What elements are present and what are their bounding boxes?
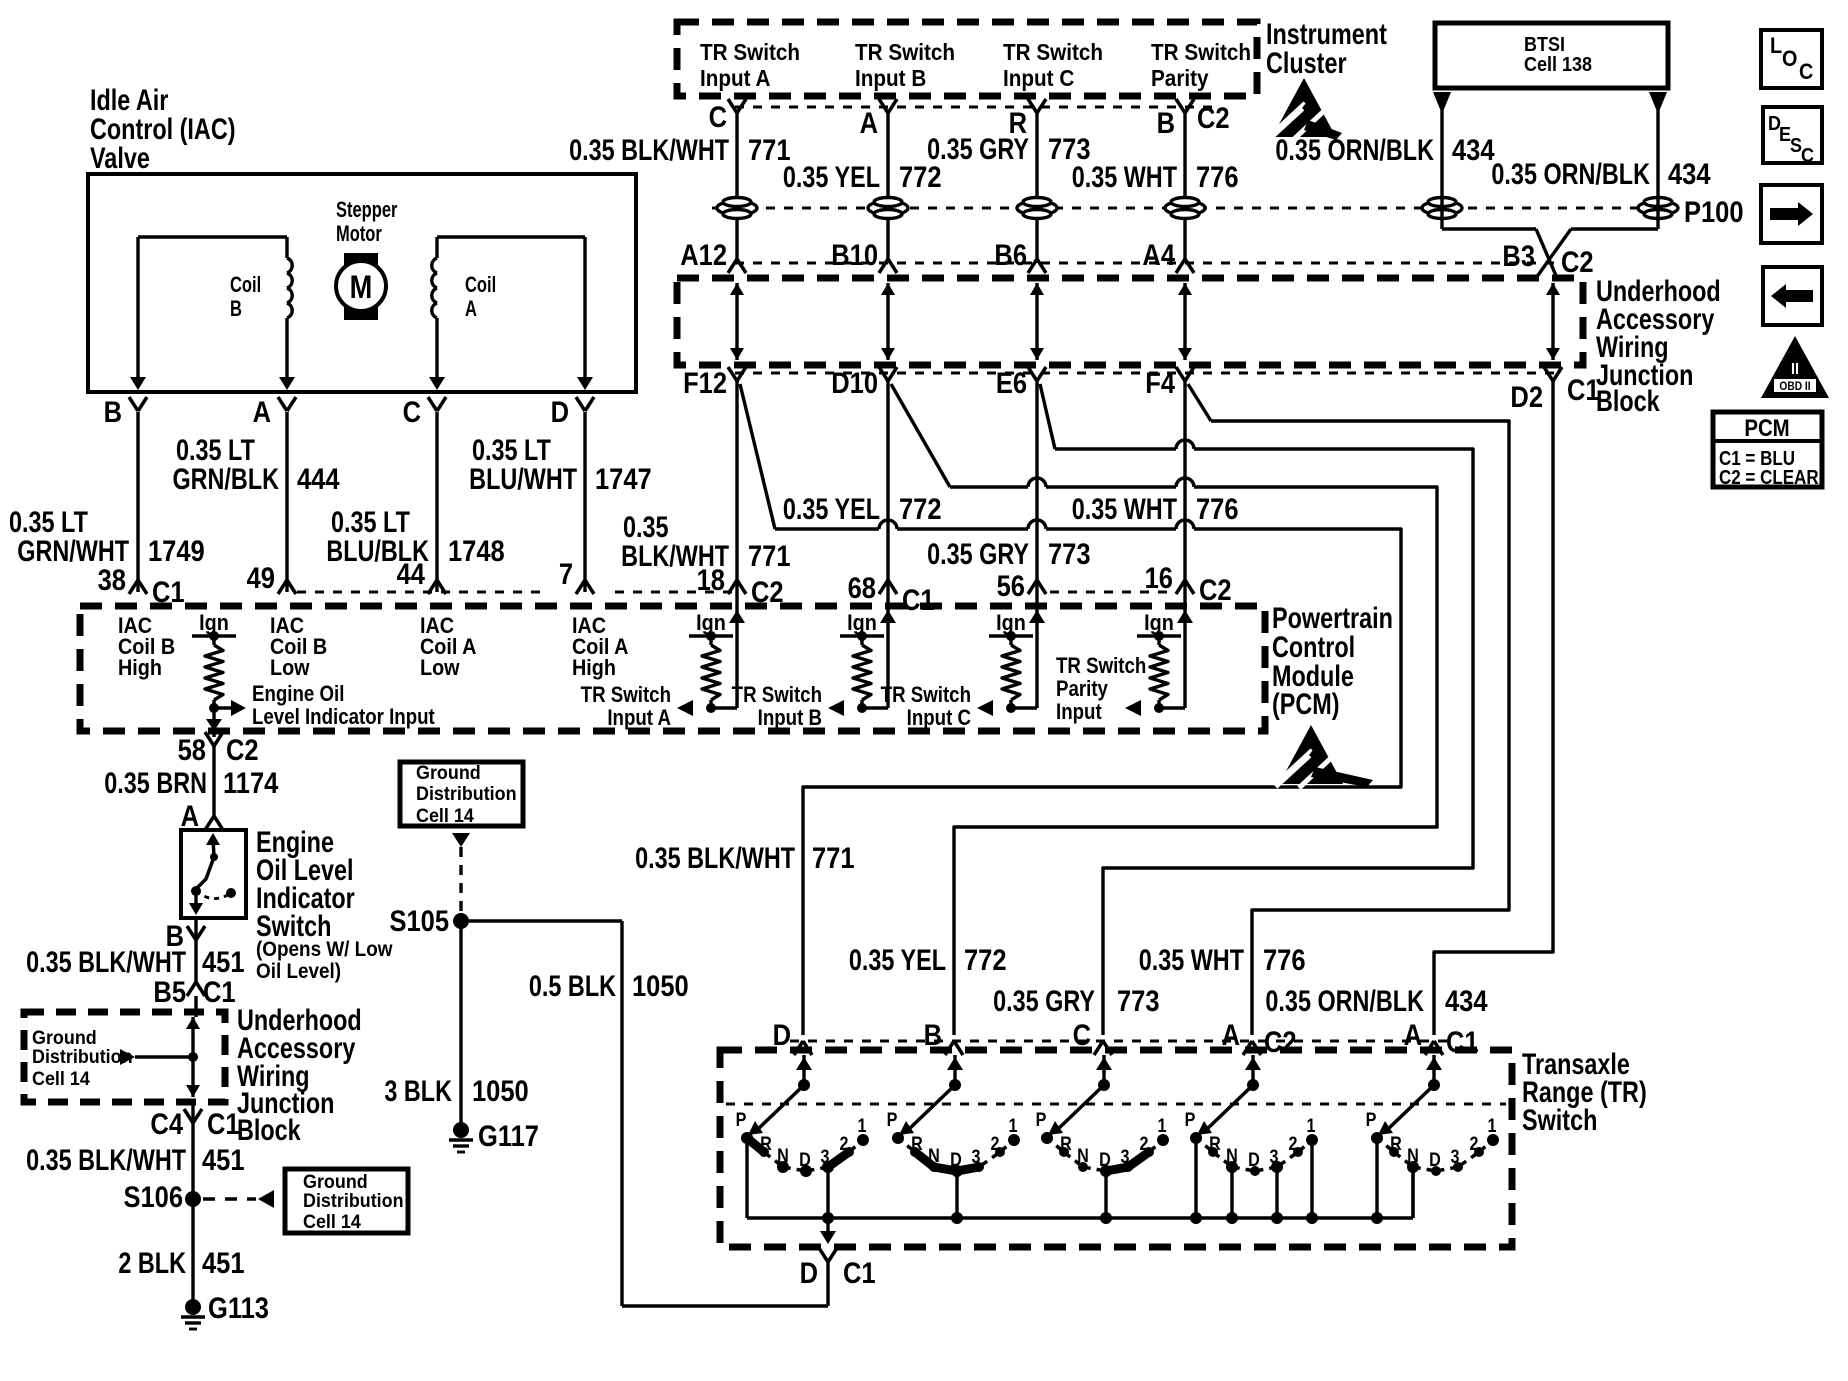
svg-text:BTSI: BTSI bbox=[1524, 34, 1565, 56]
svg-text:Coil: Coil bbox=[465, 273, 496, 298]
TR switch pin B bbox=[945, 1041, 954, 1055]
svg-text:D: D bbox=[551, 395, 569, 428]
instrument cluster internal function box bbox=[677, 22, 1257, 96]
PCM pin 18/C2 bbox=[728, 580, 737, 594]
wire 3 BLK 1050 bbox=[459, 921, 462, 1124]
ground G117 bbox=[453, 1122, 469, 1138]
svg-text:M: M bbox=[350, 270, 373, 306]
svg-text:G113: G113 bbox=[208, 1291, 269, 1324]
wire 772 lower horizontal to TR pin B bbox=[954, 818, 1437, 1035]
svg-text:Stepper: Stepper bbox=[336, 198, 398, 223]
svg-text:TR Switch: TR Switch bbox=[1056, 655, 1146, 679]
pin E6 junction block bottom bbox=[1028, 367, 1037, 381]
svg-text:0.35 WHT: 0.35 WHT bbox=[1072, 160, 1178, 193]
pin C of instrument cluster bbox=[728, 99, 737, 113]
svg-text:773: 773 bbox=[1117, 984, 1160, 1017]
svg-text:451: 451 bbox=[202, 945, 245, 978]
svg-text:776: 776 bbox=[1263, 943, 1306, 976]
svg-text:C: C bbox=[1801, 145, 1814, 167]
PCM pin 7 bbox=[576, 580, 585, 594]
svg-text:58: 58 bbox=[178, 733, 206, 766]
svg-text:451: 451 bbox=[202, 1143, 245, 1176]
svg-text:1747: 1747 bbox=[595, 462, 652, 495]
wire 773 lower horizontal to TR pin C bbox=[1103, 859, 1473, 1035]
dashed reference to ground distribution bbox=[203, 1197, 256, 1200]
svg-text:0.35 YEL: 0.35 YEL bbox=[783, 160, 880, 193]
svg-text:D: D bbox=[800, 1256, 818, 1289]
svg-text:G117: G117 bbox=[478, 1119, 539, 1152]
svg-text:0.35 ORN/BLK: 0.35 ORN/BLK bbox=[1491, 157, 1650, 190]
svg-text:0.35 WHT: 0.35 WHT bbox=[1072, 492, 1178, 525]
svg-text:High: High bbox=[572, 656, 616, 680]
svg-text:D: D bbox=[1248, 1149, 1260, 1171]
inline connector (BTSI left wire) bbox=[1422, 201, 1462, 215]
svg-text:0.35 BRN: 0.35 BRN bbox=[104, 766, 207, 799]
wire from IAC pin A to PCM bbox=[285, 412, 288, 592]
inline connector at x=1185 bbox=[1165, 201, 1205, 215]
svg-text:R: R bbox=[911, 1133, 923, 1155]
svg-text:B: B bbox=[104, 395, 122, 428]
PCM pin 49 bbox=[278, 580, 287, 594]
svg-text:771: 771 bbox=[812, 841, 855, 874]
svg-text:0.35 YEL: 0.35 YEL bbox=[783, 492, 880, 525]
oil switch pin B bbox=[187, 926, 196, 940]
inline connector at x=1037 bbox=[1017, 201, 1057, 215]
TR rotary switch 1 (input D) bbox=[802, 1055, 805, 1085]
TR switch inner dashed line bbox=[726, 1103, 1506, 1106]
BTSI Cell 138 box bbox=[1435, 23, 1668, 88]
TR rotary switch 5 (input A C1) bbox=[1432, 1055, 1435, 1085]
svg-text:0.35 BLK/WHT: 0.35 BLK/WHT bbox=[26, 945, 186, 978]
PCM pin 68/C1 bbox=[879, 580, 888, 594]
pin B6 junction block top bbox=[1028, 259, 1037, 273]
wire 434 lower horizontal to TR pin A C1 bbox=[1434, 943, 1553, 1035]
svg-text:Level Indicator Input: Level Indicator Input bbox=[252, 706, 435, 730]
coil A loop wire bbox=[437, 235, 585, 238]
svg-text:(Opens W/ Low: (Opens W/ Low bbox=[256, 938, 393, 961]
svg-text:BLU/WHT: BLU/WHT bbox=[469, 462, 577, 495]
svg-text:S106: S106 bbox=[123, 1180, 183, 1213]
svg-text:434: 434 bbox=[1445, 984, 1488, 1017]
svg-text:2: 2 bbox=[1289, 1133, 1298, 1155]
instrument cluster connector face line bbox=[735, 106, 1216, 109]
svg-text:C1: C1 bbox=[1567, 373, 1600, 406]
svg-text:A4: A4 bbox=[1142, 238, 1175, 271]
svg-text:TR Switch: TR Switch bbox=[1151, 39, 1251, 65]
svg-text:0.5 BLK: 0.5 BLK bbox=[529, 969, 617, 1002]
wire 773 horizontal run bbox=[1055, 447, 1176, 450]
svg-text:B: B bbox=[1157, 106, 1175, 139]
wire TR input at x=1185 inside PCM bbox=[1183, 592, 1186, 708]
TR rotary switch 4 (input A C2) bbox=[1251, 1055, 1254, 1085]
TR switch common bus bbox=[747, 1216, 1413, 1220]
wire TR input at x=888 inside PCM bbox=[886, 592, 889, 708]
svg-text:S105: S105 bbox=[389, 904, 449, 937]
svg-text:E6: E6 bbox=[996, 366, 1027, 399]
wire BTSI right diagonal to B3 bbox=[1536, 229, 1571, 278]
svg-text:0.35 ORN/BLK: 0.35 ORN/BLK bbox=[1275, 133, 1434, 166]
svg-text:1: 1 bbox=[1009, 1115, 1018, 1137]
svg-text:P: P bbox=[1366, 1109, 1377, 1131]
svg-text:C1: C1 bbox=[207, 1107, 240, 1140]
svg-text:1: 1 bbox=[1307, 1115, 1316, 1137]
PCM pin 56 bbox=[1028, 580, 1037, 594]
svg-text:D: D bbox=[799, 1149, 811, 1171]
svg-text:1: 1 bbox=[1158, 1115, 1167, 1137]
pin B5 / C1 bbox=[187, 982, 196, 996]
junction block bottom connector face line bbox=[735, 372, 1560, 375]
pin A4 junction block top bbox=[1176, 259, 1185, 273]
wire 772 corner down x=1437 bbox=[1428, 487, 1437, 818]
svg-text:D: D bbox=[1099, 1149, 1111, 1171]
svg-text:0.35 ORN/BLK: 0.35 ORN/BLK bbox=[1265, 984, 1424, 1017]
svg-text:Input A: Input A bbox=[700, 65, 771, 91]
inline connector P100 (BTSI right wire) bbox=[1638, 201, 1678, 215]
input arrow TR Switch Input A bbox=[677, 700, 693, 716]
svg-text:38: 38 bbox=[98, 563, 126, 596]
junction block top connector face line bbox=[735, 262, 1560, 265]
svg-text:Input B: Input B bbox=[855, 65, 926, 91]
svg-text:Oil Level): Oil Level) bbox=[256, 960, 341, 983]
svg-text:C2: C2 bbox=[1199, 573, 1232, 606]
wire 772 horizontal run bbox=[950, 485, 1028, 488]
svg-text:D: D bbox=[773, 1018, 791, 1051]
svg-text:C1: C1 bbox=[203, 975, 236, 1008]
svg-text:Input C: Input C bbox=[907, 707, 972, 731]
svg-text:C2 = CLEAR: C2 = CLEAR bbox=[1719, 466, 1819, 489]
svg-text:1: 1 bbox=[858, 1115, 867, 1137]
pin A12 junction block top bbox=[728, 259, 737, 273]
svg-text:Coil: Coil bbox=[230, 273, 261, 298]
svg-text:0.35 BLK/WHT: 0.35 BLK/WHT bbox=[569, 133, 729, 166]
svg-text:B6: B6 bbox=[994, 238, 1027, 271]
transaxle range (TR) switch box bbox=[720, 1050, 1512, 1247]
wire 434 from D2 down bbox=[1551, 381, 1554, 943]
svg-text:0.35 WHT: 0.35 WHT bbox=[1139, 943, 1245, 976]
svg-text:D10: D10 bbox=[831, 366, 878, 399]
arrow down to pin 58 bbox=[206, 719, 222, 731]
underhood junction block box (left) bbox=[24, 1012, 225, 1102]
svg-text:P: P bbox=[1036, 1109, 1047, 1131]
svg-text:776: 776 bbox=[1196, 492, 1239, 525]
svg-text:Parity: Parity bbox=[1056, 678, 1109, 702]
svg-text:C2: C2 bbox=[226, 733, 259, 766]
svg-text:N: N bbox=[1226, 1145, 1238, 1167]
wire from IAC pin C to PCM bbox=[435, 412, 438, 592]
pass-through P100 dashed line bbox=[712, 207, 1645, 210]
svg-text:Input B: Input B bbox=[758, 707, 822, 731]
IAC valve box bbox=[88, 174, 636, 392]
IAC valve pin D bbox=[576, 397, 585, 411]
svg-text:A: A bbox=[1404, 1018, 1422, 1051]
svg-text:Ground: Ground bbox=[416, 761, 481, 783]
svg-text:B: B bbox=[230, 297, 242, 322]
svg-text:Valve: Valve bbox=[90, 141, 150, 174]
svg-text:R: R bbox=[760, 1133, 772, 1155]
svg-text:Parity: Parity bbox=[1151, 65, 1209, 91]
svg-text:772: 772 bbox=[964, 943, 1007, 976]
svg-text:N: N bbox=[1407, 1145, 1419, 1167]
ground distribution cell 14 box (S106) bbox=[285, 1169, 408, 1233]
svg-text:A: A bbox=[181, 799, 199, 832]
svg-text:1174: 1174 bbox=[223, 766, 279, 799]
svg-text:TR Switch: TR Switch bbox=[581, 684, 671, 708]
oil switch pin A bbox=[205, 816, 214, 830]
svg-text:Switch: Switch bbox=[1522, 1103, 1597, 1136]
wire 771 lower horizontal to TR pin D bbox=[803, 778, 1401, 1035]
svg-text:776: 776 bbox=[1196, 160, 1239, 193]
svg-text:773: 773 bbox=[1048, 537, 1091, 570]
svg-text:N: N bbox=[928, 1145, 940, 1167]
svg-text:18: 18 bbox=[697, 563, 725, 596]
svg-text:TR Switch: TR Switch bbox=[732, 684, 822, 708]
svg-text:B5: B5 bbox=[153, 975, 186, 1008]
svg-text:Distribution: Distribution bbox=[416, 782, 517, 804]
splice S105 bbox=[453, 913, 469, 929]
TR switch top pins connector face bbox=[790, 1040, 1450, 1043]
wire 773 branch E6 diagonal bbox=[1040, 384, 1055, 449]
svg-text:GRN/BLK: GRN/BLK bbox=[172, 462, 279, 495]
icon DESC box bbox=[1763, 107, 1822, 163]
icon left-arrow box bbox=[1763, 267, 1822, 325]
pin R of instrument cluster bbox=[1028, 99, 1037, 113]
svg-text:C: C bbox=[403, 395, 421, 428]
svg-text:A: A bbox=[253, 395, 271, 428]
svg-text:O: O bbox=[1782, 47, 1797, 71]
svg-text:1050: 1050 bbox=[632, 969, 689, 1002]
wire 773 corner down x=1473 bbox=[1464, 449, 1473, 859]
svg-text:3 BLK: 3 BLK bbox=[384, 1074, 452, 1107]
svg-text:A12: A12 bbox=[680, 238, 727, 271]
svg-text:0.35 GRY: 0.35 GRY bbox=[927, 537, 1029, 570]
svg-text:771: 771 bbox=[748, 539, 791, 572]
pin B10 junction block top bbox=[879, 259, 888, 273]
wire 776 branch F4 diagonal bbox=[1188, 384, 1211, 421]
pin C4 / C1 bbox=[184, 1109, 193, 1123]
svg-text:D: D bbox=[1429, 1149, 1441, 1171]
wire 0.35 BLK/WHT 451 (lower) bbox=[191, 1102, 194, 1299]
ESD symbol (instrument cluster) bbox=[1268, 78, 1342, 141]
svg-text:Cluster: Cluster bbox=[1266, 46, 1347, 79]
junction block feed-through wire (left) bbox=[191, 1017, 194, 1097]
splice S106 bbox=[185, 1191, 201, 1207]
svg-text:444: 444 bbox=[297, 462, 340, 495]
icon right-arrow box bbox=[1761, 185, 1822, 243]
svg-text:68: 68 bbox=[848, 571, 876, 604]
svg-text:Low: Low bbox=[420, 656, 460, 680]
pin D10 junction block bottom bbox=[879, 367, 888, 381]
svg-text:Low: Low bbox=[270, 656, 310, 680]
svg-text:Engine Oil: Engine Oil bbox=[252, 683, 344, 707]
pin A of instrument cluster bbox=[879, 99, 888, 113]
junction block feed-through wire x=888 bbox=[886, 283, 889, 360]
coil A inductor bbox=[432, 258, 437, 273]
svg-text:B10: B10 bbox=[831, 238, 878, 271]
svg-text:(PCM): (PCM) bbox=[1272, 687, 1340, 720]
engine oil level indicator switch box bbox=[181, 830, 246, 918]
svg-text:C1: C1 bbox=[902, 583, 935, 616]
wire 0.5 BLK 1050 run bbox=[461, 919, 622, 922]
pin F12 junction block bottom bbox=[728, 367, 737, 381]
svg-text:1748: 1748 bbox=[448, 534, 505, 567]
svg-text:D: D bbox=[950, 1149, 962, 1171]
svg-text:Input: Input bbox=[1056, 701, 1102, 725]
arrow from ground distribution to wire bbox=[120, 1049, 135, 1065]
wire 0.35 BLK/WHT 451 (upper) bbox=[194, 918, 197, 982]
icon OBD II triangle bbox=[1761, 336, 1829, 398]
svg-text:Cell 14: Cell 14 bbox=[416, 804, 474, 826]
IAC valve pin A bbox=[278, 397, 287, 411]
svg-text:R: R bbox=[1209, 1133, 1221, 1155]
svg-text:Distribution: Distribution bbox=[32, 1045, 133, 1067]
input arrow TR Switch Parity Input bbox=[1125, 700, 1141, 716]
ESD symbol (PCM) bbox=[1275, 725, 1373, 788]
wire 776 corner down x=1509 bbox=[1500, 421, 1509, 901]
pin B / C2 of instrument cluster bbox=[1176, 99, 1185, 113]
svg-text:Cell 14: Cell 14 bbox=[303, 1210, 361, 1232]
svg-text:3: 3 bbox=[1270, 1146, 1279, 1168]
svg-text:TR Switch: TR Switch bbox=[700, 39, 800, 65]
wire TR input at x=1037 inside PCM bbox=[1035, 592, 1038, 708]
svg-text:D2: D2 bbox=[1510, 380, 1543, 413]
svg-text:C4: C4 bbox=[150, 1107, 183, 1140]
svg-text:P100: P100 bbox=[1684, 195, 1744, 228]
svg-text:434: 434 bbox=[1668, 157, 1711, 190]
svg-text:A: A bbox=[860, 106, 878, 139]
svg-text:TR Switch: TR Switch bbox=[881, 684, 971, 708]
wire BTSI left diagonal to B3 bbox=[1536, 229, 1557, 278]
svg-text:TR Switch: TR Switch bbox=[1003, 39, 1103, 65]
wire 771 branch F12 diagonal bbox=[740, 384, 775, 529]
engine oil level indicator input arrow bbox=[209, 703, 219, 713]
svg-text:0.35 YEL: 0.35 YEL bbox=[849, 943, 946, 976]
svg-text:Distribution: Distribution bbox=[303, 1189, 404, 1211]
input arrow TR Switch Input B bbox=[828, 700, 844, 716]
TR switch ground exit arrow bbox=[826, 1218, 829, 1232]
PCM pin 58 / C2 bbox=[205, 732, 214, 746]
underhood accessory wiring junction block box bbox=[677, 278, 1583, 365]
svg-text:A: A bbox=[1222, 1018, 1240, 1051]
svg-text:N: N bbox=[1077, 1145, 1089, 1167]
svg-text:16: 16 bbox=[1145, 561, 1173, 594]
svg-text:2: 2 bbox=[1470, 1133, 1479, 1155]
junction block feed-through wire x=1185 bbox=[1183, 283, 1186, 360]
TR rotary switch 2 (input B) bbox=[953, 1055, 956, 1085]
svg-text:B: B bbox=[924, 1018, 942, 1051]
svg-text:0.35 GRY: 0.35 GRY bbox=[993, 984, 1095, 1017]
svg-text:0.35 BLK/WHT: 0.35 BLK/WHT bbox=[26, 1143, 186, 1176]
svg-text:2 BLK: 2 BLK bbox=[118, 1246, 186, 1279]
svg-text:P: P bbox=[1185, 1109, 1196, 1131]
svg-text:1749: 1749 bbox=[148, 534, 205, 567]
svg-text:R: R bbox=[1390, 1133, 1402, 1155]
wire 0.35 BRN 1174 bbox=[212, 746, 215, 816]
svg-text:Input C: Input C bbox=[1003, 65, 1074, 91]
svg-text:3: 3 bbox=[972, 1146, 981, 1168]
TR switch pin A/C1 bbox=[1425, 1041, 1434, 1055]
svg-text:II: II bbox=[1791, 360, 1799, 378]
svg-text:A: A bbox=[465, 297, 477, 322]
svg-text:0.35 GRY: 0.35 GRY bbox=[927, 132, 1029, 165]
svg-text:High: High bbox=[118, 656, 162, 680]
wire 776 lower horizontal to TR pin A C2 bbox=[1252, 901, 1509, 1035]
svg-text:OBD II: OBD II bbox=[1779, 380, 1810, 393]
svg-text:N: N bbox=[777, 1145, 789, 1167]
svg-text:PCM: PCM bbox=[1744, 414, 1789, 441]
svg-text:L: L bbox=[1770, 34, 1782, 58]
svg-text:Block: Block bbox=[1596, 384, 1660, 417]
wire 772 branch D10 diagonal bbox=[891, 384, 950, 487]
svg-text:3: 3 bbox=[1451, 1146, 1460, 1168]
TR switch pin D bbox=[794, 1041, 803, 1055]
IAC valve pin C bbox=[428, 397, 437, 411]
svg-text:772: 772 bbox=[899, 492, 942, 525]
svg-text:C: C bbox=[709, 100, 727, 133]
dashed wire to S105 bbox=[459, 847, 462, 913]
PCM pin 16/C2 bbox=[1176, 580, 1185, 594]
inline connector at x=737 bbox=[717, 201, 757, 215]
junction block feed-through wire x=1553 bbox=[1551, 283, 1554, 360]
svg-text:49: 49 bbox=[247, 561, 275, 594]
PCM pin 44 bbox=[428, 580, 437, 594]
svg-text:F4: F4 bbox=[1145, 366, 1175, 399]
wire BTSI left (ORN/BLK 434) bbox=[1433, 92, 1451, 114]
inline connector at x=888 bbox=[868, 201, 908, 215]
svg-text:1050: 1050 bbox=[472, 1074, 529, 1107]
svg-text:B3: B3 bbox=[1502, 239, 1535, 272]
svg-text:0.35 BLK/WHT: 0.35 BLK/WHT bbox=[635, 841, 795, 874]
PCM connector color legend box bbox=[1713, 412, 1822, 487]
TR switch pin C bbox=[1094, 1041, 1103, 1055]
wire TR input at x=737 inside PCM bbox=[735, 592, 738, 708]
svg-text:Input A: Input A bbox=[607, 707, 671, 731]
powertrain control module (PCM) box bbox=[80, 606, 1265, 731]
svg-text:7: 7 bbox=[559, 557, 573, 590]
svg-text:C2: C2 bbox=[1197, 101, 1230, 134]
svg-text:C: C bbox=[1799, 60, 1813, 84]
pin D2 / C1 junction block bottom bbox=[1544, 367, 1553, 381]
svg-text:R: R bbox=[1060, 1133, 1072, 1155]
wire 776 horizontal run bbox=[1211, 419, 1500, 422]
svg-text:Motor: Motor bbox=[336, 222, 382, 247]
wire from IAC pin D to PCM bbox=[583, 412, 586, 592]
svg-text:2: 2 bbox=[1140, 1133, 1149, 1155]
arrow from ground distribution box down bbox=[452, 833, 470, 847]
wire 771 corner down x=1401 bbox=[1392, 529, 1401, 778]
junction block feed-through wire x=1037 bbox=[1035, 283, 1038, 360]
svg-text:TR Switch: TR Switch bbox=[855, 39, 955, 65]
svg-text:1: 1 bbox=[1488, 1115, 1497, 1137]
svg-text:Cell 14: Cell 14 bbox=[32, 1067, 90, 1089]
ground G113 bbox=[185, 1299, 201, 1315]
coil B loop wire bbox=[138, 235, 287, 238]
svg-text:Cell 138: Cell 138 bbox=[1524, 54, 1592, 76]
wire 771 horizontal run bbox=[775, 527, 879, 530]
svg-text:3: 3 bbox=[821, 1146, 830, 1168]
IAC valve pin B bbox=[129, 397, 138, 411]
svg-text:3: 3 bbox=[1121, 1146, 1130, 1168]
svg-text:56: 56 bbox=[997, 569, 1025, 602]
PCM connector face dashed segments bbox=[297, 591, 548, 594]
input arrow TR Switch Input C bbox=[977, 700, 993, 716]
svg-text:C1: C1 bbox=[843, 1256, 876, 1289]
TR switch pin A/C2 bbox=[1243, 1041, 1252, 1055]
svg-text:C: C bbox=[1073, 1018, 1091, 1051]
svg-text:F12: F12 bbox=[683, 366, 727, 399]
TR switch pin D / C1 (bottom) bbox=[819, 1248, 828, 1262]
wire from IAC pin B to PCM bbox=[136, 412, 139, 592]
junction block feed-through wire x=737 bbox=[735, 283, 738, 360]
